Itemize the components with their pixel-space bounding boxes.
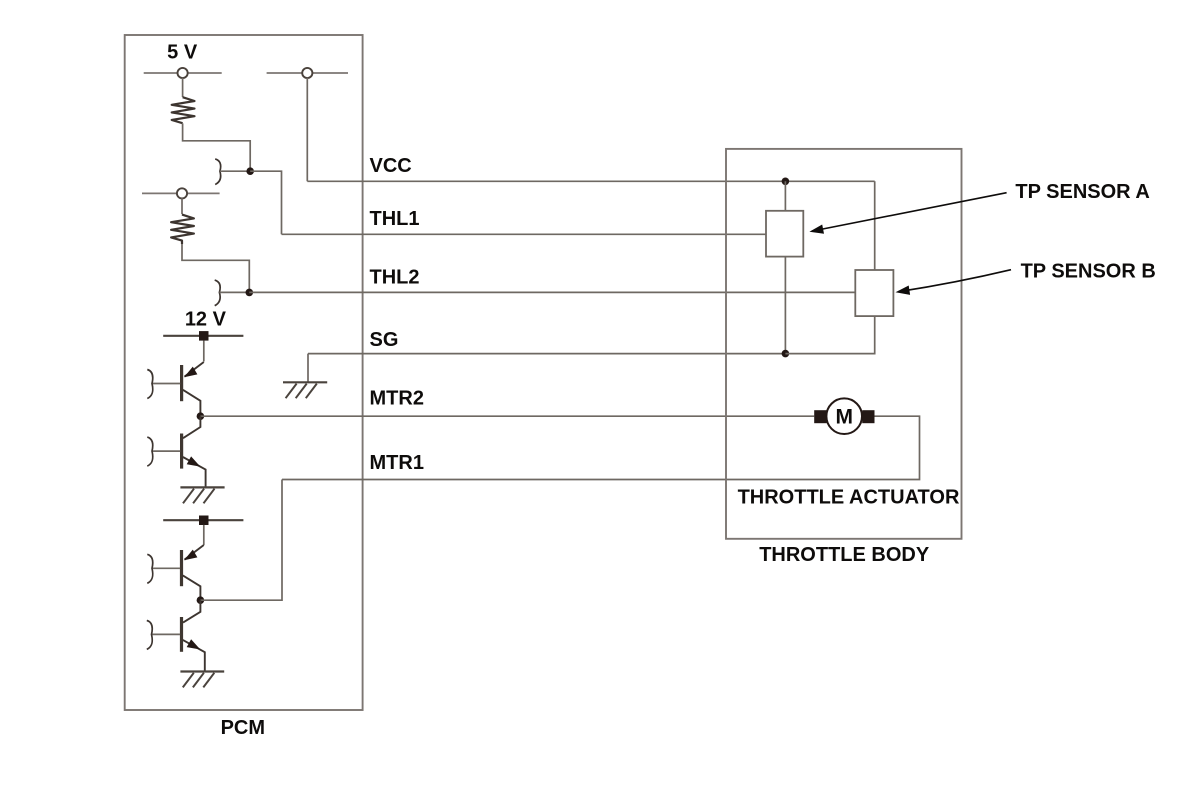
wire pigtail to THL2 node (219, 291, 249, 293)
svg-text:THL2: THL2 (370, 266, 420, 288)
terminal 5V (rail 2) (142, 188, 220, 198)
svg-text:THROTTLE ACTUATOR: THROTTLE ACTUATOR (738, 487, 960, 509)
wire SG to ground (307, 354, 309, 383)
arrowhead TP sensor A (809, 225, 824, 234)
svg-text:5 V: 5 V (167, 42, 198, 64)
transistor Q2 collector lead (183, 416, 200, 438)
transistor Q3 emitter arrow (184, 550, 197, 561)
wire 12V to Q1 emitter (203, 341, 205, 362)
ground Q4 (180, 672, 224, 688)
wire Q1 base (152, 383, 180, 385)
wire R1 to node THL2ref (183, 123, 251, 171)
wire Q2 base (152, 450, 180, 452)
svg-text:TP SENSOR A: TP SENSOR A (1015, 181, 1149, 203)
transistor Q3 base bar (180, 550, 183, 586)
ground SG (283, 382, 327, 398)
svg-text:THROTTLE BODY: THROTTLE BODY (759, 544, 930, 566)
12V rail 2 (163, 516, 243, 526)
connector pigtail Q4 base (147, 620, 152, 649)
terminal 5V (B+ rail 1) (144, 68, 222, 78)
transistor Q3 emitter lead (185, 545, 204, 560)
svg-text:PCM: PCM (221, 717, 265, 739)
wire THL1 line (282, 233, 767, 235)
transistor Q2 base bar (180, 434, 183, 469)
wire R2 to THL2 node (182, 244, 249, 292)
terminal VCC rail (267, 68, 348, 78)
wire 12V to Q3 emitter (203, 525, 205, 545)
leader line TP sensor B (899, 270, 1012, 292)
motor M right terminal (862, 410, 874, 423)
wire VCC down to TP sensor B (874, 181, 876, 270)
12V rail 1 (163, 331, 243, 341)
TP sensor A box (766, 211, 803, 257)
resistor R2 (171, 215, 194, 244)
transistor Q1 emitter lead (185, 362, 204, 377)
ground Q2 (180, 487, 224, 503)
junction node at VCC divider (246, 167, 254, 175)
connector pigtail near VCC node (215, 159, 220, 185)
junction node THL2 (246, 289, 254, 297)
wire TP sensor B to SG node (785, 316, 874, 354)
transistor Q3 collector lead (183, 575, 201, 600)
wire terminal to resistor R2 (181, 198, 183, 214)
wire VCC vertical (306, 78, 308, 182)
arrowhead TP sensor B (896, 286, 911, 295)
wire Q3 base (152, 567, 180, 569)
transistor Q4 emitter arrow (187, 639, 201, 649)
THROTTLE BODY box (726, 149, 962, 539)
svg-text:VCC: VCC (370, 155, 412, 177)
transistor Q2 emitter lead (183, 457, 206, 487)
transistor Q4 collector lead (183, 600, 200, 622)
transistor Q4 emitter lead (183, 640, 205, 672)
svg-text:SG: SG (370, 329, 399, 351)
transistor Q1 emitter arrow (184, 367, 197, 378)
svg-text:12 V: 12 V (185, 309, 227, 331)
wire MTR2 line (200, 415, 814, 417)
connector pigtail near THL2 node (215, 280, 220, 306)
wire terminal to resistor R1 (182, 78, 184, 97)
transistor Q4 base bar (180, 617, 183, 652)
resistor R1 (172, 97, 195, 123)
junction node MTR1 (197, 596, 205, 604)
svg-text:TP SENSOR B: TP SENSOR B (1021, 261, 1156, 283)
wire SG line (308, 353, 785, 355)
leader line TP sensor A (812, 193, 1007, 231)
motor M circle (826, 398, 862, 434)
wire Q4 base (152, 633, 181, 635)
svg-text:MTR2: MTR2 (370, 388, 424, 410)
wire MTR1 node to riser (200, 480, 282, 601)
motor M left terminal (814, 410, 826, 423)
junction node SG in throttle body (782, 350, 790, 358)
junction node MTR2 (197, 412, 205, 420)
connector pigtail Q3 base (147, 554, 152, 583)
PCM box (125, 35, 363, 710)
svg-text:THL1: THL1 (370, 208, 420, 230)
wire VCC line (307, 180, 874, 182)
TP sensor B box (855, 270, 893, 316)
wire pigtail to node (220, 170, 250, 172)
junction node VCC in throttle body (782, 178, 790, 186)
wire node to THL1 line (250, 171, 281, 234)
wire TP sensor A to SG node (784, 257, 786, 354)
wire MTR1 line (282, 416, 920, 479)
svg-text:M: M (835, 406, 853, 429)
transistor Q1 collector lead (183, 390, 201, 416)
connector pigtail Q2 base (147, 437, 152, 466)
wire THL2 line (249, 291, 855, 293)
connector pigtail Q1 base (147, 370, 152, 399)
svg-text:MTR1: MTR1 (370, 452, 424, 474)
wire VCC node to TP sensor A (784, 181, 786, 211)
transistor Q1 base bar (180, 365, 183, 401)
transistor Q2 emitter arrow (187, 456, 201, 466)
